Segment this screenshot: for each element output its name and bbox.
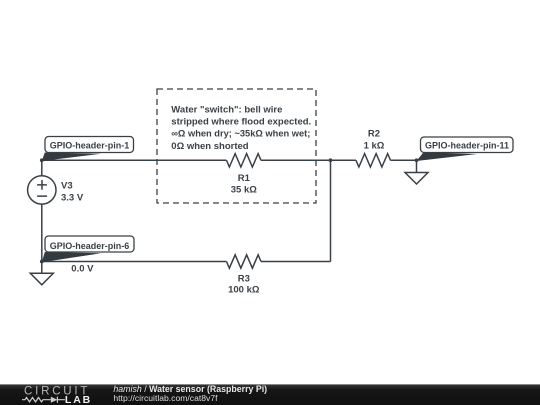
svg-text:100 kΩ: 100 kΩ [228, 285, 260, 296]
svg-text:3.3 V: 3.3 V [61, 193, 84, 204]
svg-text:http://circuitlab.com/cat8v7f: http://circuitlab.com/cat8v7f [113, 393, 218, 403]
svg-text:GPIO-header-pin-6: GPIO-header-pin-6 [50, 241, 130, 251]
svg-text:R1: R1 [238, 173, 251, 184]
svg-text:stripped where flood expected.: stripped where flood expected. [171, 117, 311, 128]
svg-text:GPIO-header-pin-1: GPIO-header-pin-1 [50, 140, 130, 150]
svg-text:0Ω when shorted: 0Ω when shorted [171, 141, 248, 152]
svg-text:∞Ω when dry; ~35kΩ when wet;: ∞Ω when dry; ~35kΩ when wet; [171, 129, 310, 139]
svg-text:V3: V3 [61, 181, 73, 192]
svg-text:Water "switch": bell wire: Water "switch": bell wire [171, 104, 282, 115]
svg-text:GPIO-header-pin-11: GPIO-header-pin-11 [425, 141, 509, 151]
svg-text:35 kΩ: 35 kΩ [231, 184, 257, 195]
svg-text:LAB: LAB [65, 394, 92, 405]
svg-text:R2: R2 [368, 128, 380, 139]
svg-text:R3: R3 [238, 274, 250, 285]
svg-text:0.0 V: 0.0 V [71, 263, 94, 274]
svg-text:1 kΩ: 1 kΩ [364, 140, 385, 151]
